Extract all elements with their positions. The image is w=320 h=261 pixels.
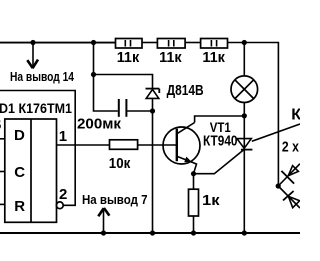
wire top supply rail left segment xyxy=(0,42,116,44)
capacitor C1 200мк xyxy=(119,99,127,117)
svg-text:10к: 10к xyxy=(109,155,131,172)
pin 2 inversion bubble xyxy=(56,202,63,209)
svg-text:5: 5 xyxy=(0,118,1,133)
wire lamp feed xyxy=(243,43,245,76)
svg-text:2: 2 xyxy=(59,186,67,203)
svg-text:11к: 11к xyxy=(202,49,225,66)
wire collector to lamp node xyxy=(195,116,245,123)
wire R3 to lamp node xyxy=(228,42,245,44)
svg-text:На вывод 7: На вывод 7 xyxy=(82,192,148,207)
svg-text:200мк: 200мк xyxy=(77,115,121,132)
wire zener bottom to node xyxy=(152,98,154,111)
diode VD2 on lamp line xyxy=(237,139,253,150)
pin stub D input xyxy=(0,138,5,140)
node junction dot zener ground xyxy=(150,230,155,235)
svg-text:КТ940: КТ940 xyxy=(203,132,238,149)
svg-text:C: C xyxy=(14,164,25,181)
wire to zener top xyxy=(94,75,153,89)
feedback wire from pin 2 around IC xyxy=(0,91,75,206)
arrow head to pin 14 xyxy=(27,60,38,69)
wire top rail to right corner xyxy=(244,43,278,187)
svg-text:11к: 11к xyxy=(159,49,182,66)
node junction dot supply branch xyxy=(91,40,96,45)
node junction dot rectifier xyxy=(276,183,281,188)
svg-text:2 х: 2 х xyxy=(282,138,300,155)
node junction dot zener/cap xyxy=(150,108,155,113)
wire lamp bottom down xyxy=(243,103,245,234)
IC D1 box xyxy=(5,119,57,222)
wire emitter to diode cathode xyxy=(194,150,244,174)
node junction dot pin14 tap xyxy=(30,40,35,45)
svg-text:1к: 1к xyxy=(202,192,220,209)
wire pin 1 output to base resistor xyxy=(57,144,110,146)
node junction dot emitter xyxy=(191,171,196,176)
wire cap right plate to node xyxy=(126,110,152,112)
wire zener node down to ground rail xyxy=(152,111,154,233)
resistor R5 1к xyxy=(189,189,199,216)
svg-text:R: R xyxy=(14,198,25,215)
svg-text:На вывод 14: На вывод 14 xyxy=(10,69,75,84)
wire R2-R3 xyxy=(185,42,201,44)
wire arrow shaft to pin 14 xyxy=(32,43,34,68)
svg-text:1: 1 xyxy=(59,128,67,145)
pin stub R input xyxy=(0,203,5,205)
node junction dot R5 ground xyxy=(191,230,196,235)
resistor R2 11к xyxy=(157,39,185,49)
wire arrow shaft to pin 7 xyxy=(103,208,105,233)
diode VD3 upper rectifier xyxy=(278,164,300,186)
wire R5 to ground rail xyxy=(193,216,195,233)
wire switch lever to mains К xyxy=(252,124,300,141)
wire emitter node to R5 xyxy=(193,174,195,190)
lamp HL1 xyxy=(231,76,258,103)
resistor R1 11к xyxy=(116,39,143,49)
node junction dot lamp top xyxy=(242,40,247,45)
wire bottom ground rail xyxy=(0,232,300,234)
resistor R4 10к xyxy=(110,140,138,150)
svg-text:Д814В: Д814В xyxy=(167,82,204,99)
wire supply branch down to capacitor xyxy=(94,43,118,112)
node junction dot pin7 arrow xyxy=(101,230,106,235)
svg-text:D: D xyxy=(14,127,25,144)
svg-text:11к: 11к xyxy=(117,49,140,66)
node junction dot lamp line ground xyxy=(242,230,247,235)
wire R4 to base xyxy=(138,144,177,146)
svg-text:К: К xyxy=(291,107,300,124)
transistor VT1 КТ940 xyxy=(163,123,200,174)
node junction dot collector/lamp xyxy=(242,113,247,118)
zener diode VD1 Д814В xyxy=(146,89,160,99)
arrow head to pin 7 xyxy=(98,208,109,216)
node junction dot zener branch xyxy=(91,72,96,77)
resistor R3 11к xyxy=(201,39,228,49)
pin stub C input xyxy=(0,171,5,173)
diode VD4 lower rectifier xyxy=(278,186,300,208)
svg-text:D1 К176ТМ1: D1 К176ТМ1 xyxy=(0,100,72,116)
wire R1-R2 xyxy=(142,42,157,44)
